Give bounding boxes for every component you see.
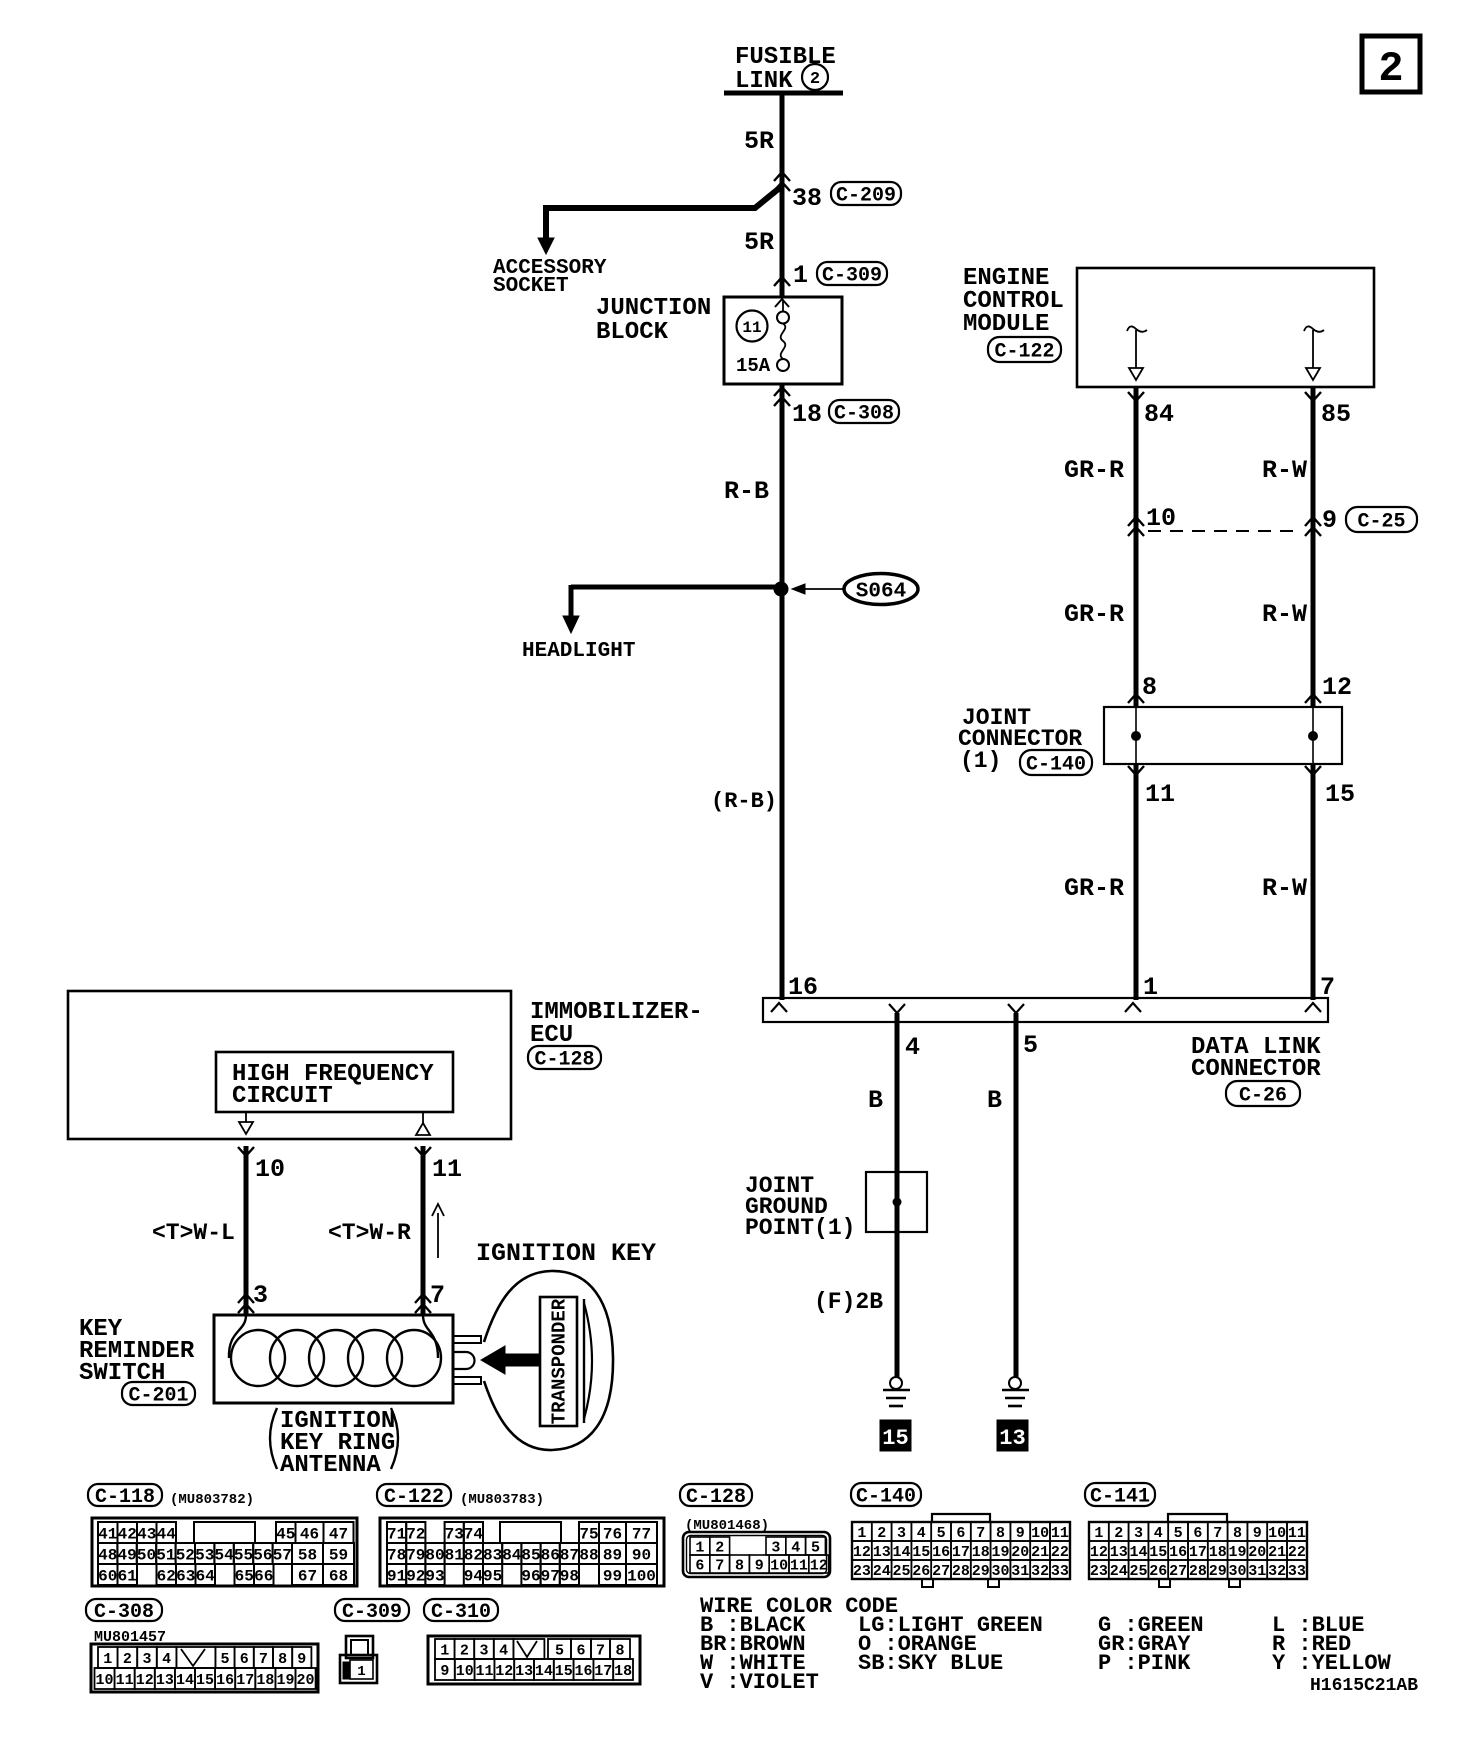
svg-text:59: 59: [329, 1546, 348, 1564]
pin 11 label ecu: [432, 1155, 462, 1184]
svg-text:<T>W-R: <T>W-R: [328, 1220, 411, 1246]
svg-text:94: 94: [464, 1567, 484, 1585]
svg-text:1: 1: [103, 1651, 112, 1668]
svg-text:2: 2: [877, 1525, 886, 1542]
svg-text:89: 89: [603, 1546, 622, 1564]
connector tag C-141: [1085, 1483, 1155, 1509]
pin 7 label dlc: [1320, 973, 1335, 1002]
svg-text:32: 32: [1268, 1563, 1286, 1580]
ground symbol left: [883, 1377, 910, 1406]
svg-text:20: 20: [1248, 1544, 1266, 1561]
svg-text:13: 13: [999, 1426, 1025, 1451]
C-122 pinout table: [380, 1518, 664, 1586]
pin 1 label dlc: [1143, 973, 1158, 1002]
svg-text:55: 55: [234, 1546, 253, 1564]
connector tag C-128: [680, 1484, 752, 1509]
svg-text:13: 13: [873, 1544, 891, 1561]
svg-text:72: 72: [406, 1525, 425, 1543]
svg-text:77: 77: [632, 1525, 651, 1543]
svg-text:19: 19: [991, 1544, 1009, 1561]
svg-text:1: 1: [695, 1539, 704, 1556]
svg-text:8: 8: [735, 1557, 744, 1574]
svg-text:14: 14: [176, 1672, 194, 1689]
pin 38 label: [792, 184, 822, 213]
svg-text:TRANSPONDER: TRANSPONDER: [549, 1298, 571, 1424]
svg-text:9: 9: [440, 1663, 449, 1680]
C-118 pinout table: [92, 1518, 357, 1586]
svg-text:4: 4: [1154, 1525, 1163, 1542]
svg-text:41: 41: [98, 1525, 117, 1543]
svg-text:57: 57: [273, 1546, 292, 1564]
ecm internal output arrow left: [1127, 326, 1147, 380]
svg-text:11: 11: [475, 1663, 493, 1680]
ecm pin 85 chevron: [1305, 392, 1321, 401]
pin 12 label: [1322, 673, 1352, 702]
ignition key label: [476, 1239, 656, 1268]
antenna coil: [229, 1315, 441, 1386]
svg-text:C-128: C-128: [534, 1049, 594, 1072]
wire label GR-R middle: [1064, 600, 1124, 629]
svg-text:(MU803782): (MU803782): [170, 1492, 254, 1508]
wire label R-W lower: [1262, 874, 1307, 903]
svg-text:29: 29: [1209, 1563, 1227, 1580]
C-140 pinout table: [852, 1514, 1070, 1587]
svg-text:18: 18: [792, 400, 822, 429]
splice pointer arrow: [792, 584, 845, 594]
svg-text:51: 51: [156, 1546, 175, 1564]
svg-text:11: 11: [1051, 1525, 1069, 1542]
svg-text:5: 5: [811, 1539, 820, 1556]
wire label B left: [868, 1086, 883, 1115]
svg-text:(1): (1): [960, 748, 1001, 774]
svg-text:3: 3: [253, 1281, 268, 1310]
C-122 part number: [460, 1492, 544, 1508]
joint ground point box: [866, 1172, 927, 1232]
svg-text:73: 73: [445, 1525, 464, 1543]
ecu pin 11 chevron: [415, 1147, 431, 1156]
svg-text:2: 2: [810, 70, 820, 89]
svg-text:3: 3: [479, 1642, 488, 1659]
svg-text:2: 2: [460, 1642, 469, 1659]
svg-text:33: 33: [1051, 1563, 1069, 1580]
svg-text:15: 15: [912, 1544, 930, 1561]
svg-text:16: 16: [574, 1663, 592, 1680]
connector tag C-140: [851, 1483, 921, 1509]
svg-text:17: 17: [594, 1663, 612, 1680]
wire W-R: [421, 1146, 426, 1315]
high frequency circuit box: [216, 1052, 453, 1112]
svg-text:R-W: R-W: [1262, 874, 1307, 903]
svg-text:C-25: C-25: [1357, 511, 1405, 534]
svg-text:C-141: C-141: [1090, 1486, 1150, 1509]
svg-text:43: 43: [137, 1525, 156, 1543]
svg-text:C-122: C-122: [994, 341, 1054, 364]
svg-text:87: 87: [560, 1546, 579, 1564]
svg-text:FUSIBLE: FUSIBLE: [735, 44, 836, 71]
legend column 2: [858, 1613, 1043, 1676]
svg-text:17: 17: [236, 1672, 254, 1689]
svg-text:8: 8: [615, 1642, 624, 1659]
svg-text:18: 18: [614, 1663, 632, 1680]
svg-text:R-B: R-B: [724, 477, 769, 506]
svg-text:100: 100: [627, 1567, 656, 1585]
svg-text:C-140: C-140: [1026, 754, 1086, 777]
svg-text:C-122: C-122: [384, 1486, 444, 1509]
headlight branch wire: [563, 585, 782, 633]
hf terminal left triangle down: [239, 1112, 253, 1134]
pin 11 label: [1145, 780, 1175, 809]
splice dot S064: [774, 582, 789, 597]
pin 10 label: [1146, 504, 1176, 533]
svg-text:12: 12: [136, 1672, 154, 1689]
svg-text:79: 79: [406, 1546, 425, 1564]
joint connector bottom chevron left: [1128, 766, 1144, 775]
C-118 part number: [170, 1492, 254, 1508]
svg-text:86: 86: [541, 1546, 560, 1564]
svg-text:46: 46: [300, 1525, 319, 1543]
connector mark above junction block: [774, 277, 790, 286]
pin 84 label: [1144, 400, 1174, 429]
svg-text:C-309: C-309: [342, 1601, 402, 1624]
svg-text:7: 7: [715, 1557, 724, 1574]
svg-text:15: 15: [1149, 1544, 1167, 1561]
svg-text:80: 80: [425, 1546, 444, 1564]
svg-text:22: 22: [1051, 1544, 1069, 1561]
svg-text:9: 9: [1322, 506, 1337, 535]
svg-text:38: 38: [792, 184, 822, 213]
svg-text:Y :YELLOW: Y :YELLOW: [1272, 1651, 1392, 1676]
svg-text:14: 14: [1129, 1544, 1147, 1561]
svg-text:54: 54: [214, 1546, 234, 1564]
pin 16 label: [788, 973, 818, 1002]
joint connector label: [958, 705, 1082, 774]
wire label (R-B): [711, 789, 777, 814]
svg-text:C-310: C-310: [431, 1601, 491, 1624]
ignition key ring antenna label: [270, 1408, 398, 1479]
connector tag C-26: [1226, 1081, 1300, 1108]
wire GR-R from ECM pin 84: [1134, 387, 1139, 707]
svg-text:9: 9: [1016, 1525, 1025, 1542]
wire label W-R: [328, 1220, 411, 1246]
svg-text:2: 2: [1378, 45, 1403, 93]
svg-text:7: 7: [259, 1651, 268, 1668]
svg-text:POINT(1): POINT(1): [745, 1215, 855, 1241]
svg-text:18: 18: [972, 1544, 990, 1561]
svg-text:84: 84: [1144, 400, 1174, 429]
svg-text:53: 53: [195, 1546, 214, 1564]
ground ref box 15: [880, 1420, 911, 1451]
svg-text:5: 5: [1174, 1525, 1183, 1542]
svg-text:31: 31: [1011, 1563, 1029, 1580]
junction block box: [724, 297, 842, 384]
svg-text:11: 11: [1288, 1525, 1306, 1542]
wire branch to accessory socket: [538, 186, 782, 254]
svg-text:HEADLIGHT: HEADLIGHT: [522, 640, 635, 663]
svg-text:13: 13: [1110, 1544, 1128, 1561]
C-128 pinout table: [683, 1532, 830, 1577]
transponder arrow: [481, 1346, 539, 1374]
wire label R-B: [724, 477, 769, 506]
pin 4 label: [905, 1033, 920, 1062]
svg-text:ANTENNA: ANTENNA: [280, 1452, 381, 1479]
wire label 5R lower: [744, 228, 774, 257]
connector tag C-309: [817, 262, 887, 288]
joint connector box: [1104, 707, 1342, 764]
svg-text:20: 20: [297, 1672, 315, 1689]
ecm pin 84 chevron: [1128, 392, 1144, 401]
svg-text:30: 30: [991, 1563, 1009, 1580]
svg-text:30: 30: [1228, 1563, 1246, 1580]
C-310 pinout table: [428, 1636, 640, 1684]
svg-text:BLOCK: BLOCK: [596, 319, 669, 346]
svg-text:9: 9: [1253, 1525, 1262, 1542]
svg-text:JUNCTION: JUNCTION: [596, 295, 711, 322]
svg-text:23: 23: [1090, 1563, 1108, 1580]
connector tag C-25: [1346, 507, 1417, 534]
wire B pin 5: [1014, 1013, 1019, 1378]
svg-text:6: 6: [240, 1651, 249, 1668]
svg-text:66: 66: [254, 1567, 273, 1585]
svg-text:10: 10: [255, 1155, 285, 1184]
svg-text:10: 10: [1031, 1525, 1049, 1542]
svg-text:71: 71: [387, 1525, 406, 1543]
svg-text:88: 88: [579, 1546, 598, 1564]
svg-text:16: 16: [1169, 1544, 1187, 1561]
svg-text:26: 26: [912, 1563, 930, 1580]
svg-text:83: 83: [483, 1546, 502, 1564]
svg-text:GR-R: GR-R: [1064, 874, 1124, 903]
svg-text:12: 12: [853, 1544, 871, 1561]
joint connector top chevron left: [1128, 694, 1144, 703]
connector tag C-310: [424, 1599, 498, 1624]
svg-text:90: 90: [632, 1546, 651, 1564]
svg-text:45: 45: [276, 1525, 295, 1543]
wire label (F)2B: [814, 1289, 883, 1315]
connector tag C-140 joint: [1020, 750, 1092, 777]
wire R-W lower: [1311, 764, 1316, 1000]
svg-text:3: 3: [897, 1525, 906, 1542]
svg-text:6: 6: [956, 1525, 965, 1542]
fuse symbol: [777, 300, 789, 371]
svg-text:<T>W-L: <T>W-L: [152, 1220, 235, 1246]
svg-text:(F)2B: (F)2B: [814, 1289, 883, 1315]
wire R-W from ECM pin 85: [1311, 387, 1316, 707]
svg-text:42: 42: [118, 1525, 137, 1543]
svg-text:49: 49: [117, 1546, 136, 1564]
svg-text:7: 7: [430, 1281, 445, 1310]
svg-text:10: 10: [770, 1557, 788, 1574]
svg-text:95: 95: [483, 1567, 502, 1585]
hf terminal right triangle up: [416, 1112, 430, 1135]
svg-text:5: 5: [937, 1525, 946, 1542]
dlc entry chevron pin1: [1125, 1003, 1141, 1012]
svg-text:6: 6: [576, 1642, 585, 1659]
svg-text:17: 17: [1189, 1544, 1207, 1561]
wire W-L: [244, 1146, 249, 1315]
C-25 double chevron right: [1305, 517, 1321, 536]
wire label R-W middle: [1262, 600, 1307, 629]
legend column 1: [700, 1613, 819, 1695]
connector tag C-118: [88, 1484, 162, 1509]
svg-text:V :VIOLET: V :VIOLET: [700, 1670, 819, 1695]
svg-text:24: 24: [1110, 1563, 1128, 1580]
data link connector bar: [763, 998, 1328, 1022]
svg-text:52: 52: [176, 1546, 195, 1564]
svg-text:28: 28: [1189, 1563, 1207, 1580]
pin 18 label: [792, 400, 822, 429]
svg-text:91: 91: [387, 1567, 406, 1585]
svg-text:24: 24: [873, 1563, 891, 1580]
svg-text:IGNITION KEY: IGNITION KEY: [476, 1239, 656, 1268]
svg-text:2: 2: [715, 1539, 724, 1556]
svg-text:19: 19: [276, 1672, 294, 1689]
legend column 3: [1098, 1613, 1204, 1676]
svg-text:16: 16: [932, 1544, 950, 1561]
diagram id H1615C21AB: [1310, 1676, 1418, 1696]
switch pin: [453, 1352, 475, 1369]
junction block top chevron: [775, 299, 789, 307]
svg-text:23: 23: [853, 1563, 871, 1580]
svg-text:5: 5: [220, 1651, 229, 1668]
svg-text:64: 64: [196, 1567, 216, 1585]
svg-text:26: 26: [1149, 1563, 1167, 1580]
svg-text:MODULE: MODULE: [963, 311, 1049, 338]
immobilizer ecu label: [530, 999, 703, 1049]
svg-text:C-209: C-209: [836, 185, 896, 208]
wire label B right: [987, 1086, 1002, 1115]
svg-text:98: 98: [560, 1567, 579, 1585]
connector tag C-122: [377, 1484, 451, 1509]
connector tag C-209: [831, 182, 901, 208]
svg-text:C-140: C-140: [856, 1486, 916, 1509]
svg-text:SOCKET: SOCKET: [493, 275, 569, 298]
svg-text:97: 97: [541, 1567, 560, 1585]
svg-text:47: 47: [329, 1525, 348, 1543]
svg-text:11: 11: [116, 1672, 134, 1689]
svg-text:18: 18: [256, 1672, 274, 1689]
svg-text:CONNECTOR: CONNECTOR: [1191, 1056, 1321, 1083]
svg-text:99: 99: [603, 1567, 622, 1585]
svg-text:B: B: [868, 1086, 883, 1115]
svg-text:13: 13: [515, 1663, 533, 1680]
svg-text:96: 96: [521, 1567, 540, 1585]
connector mark below junction block: [774, 387, 790, 406]
svg-text:3: 3: [1134, 1525, 1143, 1542]
svg-text:67: 67: [298, 1567, 317, 1585]
key reminder switch box: [214, 1315, 453, 1403]
svg-text:85: 85: [521, 1546, 540, 1564]
ecm internal output arrow right: [1304, 326, 1324, 380]
svg-text:78: 78: [387, 1546, 406, 1564]
svg-text:10: 10: [96, 1672, 114, 1689]
svg-text:74: 74: [464, 1525, 484, 1543]
C-308 pinout table: [91, 1644, 318, 1692]
connector tag C-122 ecm: [988, 337, 1061, 364]
svg-text:84: 84: [502, 1546, 522, 1564]
transponder label: [549, 1298, 571, 1424]
svg-text:11: 11: [1145, 780, 1175, 809]
joint ground point label: [745, 1173, 855, 1241]
wire label GR-R lower: [1064, 874, 1124, 903]
fusible link bus bar: [724, 91, 843, 96]
pin 85 label: [1321, 400, 1351, 429]
svg-text:R-W: R-W: [1262, 600, 1307, 629]
splice tag S064: [844, 574, 918, 605]
junction block label: [596, 295, 711, 346]
svg-text:15A: 15A: [736, 355, 771, 377]
svg-text:B: B: [987, 1086, 1002, 1115]
C-141 pinout table: [1089, 1514, 1307, 1587]
svg-text:32: 32: [1031, 1563, 1049, 1580]
svg-text:4: 4: [499, 1642, 508, 1659]
svg-text:68: 68: [329, 1567, 348, 1585]
wire color code title: [700, 1594, 898, 1619]
svg-text:12: 12: [1322, 673, 1352, 702]
ground ref box 13: [997, 1420, 1028, 1451]
krs pin 7 dchev: [415, 1294, 431, 1313]
svg-text:C-26: C-26: [1239, 1085, 1287, 1108]
svg-text:31: 31: [1248, 1563, 1266, 1580]
svg-text:CIRCUIT: CIRCUIT: [232, 1083, 333, 1110]
svg-text:12: 12: [810, 1557, 828, 1574]
pin 8 label: [1142, 673, 1157, 702]
svg-text:7: 7: [1213, 1525, 1222, 1542]
svg-text:27: 27: [932, 1563, 950, 1580]
connector tag C-309: [335, 1599, 409, 1624]
fusible link label: [735, 44, 836, 95]
svg-text:8: 8: [1142, 673, 1157, 702]
svg-text:65: 65: [235, 1567, 254, 1585]
svg-text:93: 93: [425, 1567, 444, 1585]
svg-text:C-309: C-309: [822, 265, 882, 288]
joint connector top chevron right: [1305, 694, 1321, 703]
svg-text:C-128: C-128: [686, 1486, 746, 1509]
svg-text:6: 6: [1193, 1525, 1202, 1542]
engine control module box: [1077, 268, 1374, 387]
svg-text:19: 19: [1228, 1544, 1246, 1561]
pin 10 label ecu: [255, 1155, 285, 1184]
svg-text:14: 14: [892, 1544, 910, 1561]
svg-text:10: 10: [456, 1663, 474, 1680]
svg-text:15: 15: [1325, 780, 1355, 809]
svg-text:C-308: C-308: [94, 1601, 154, 1624]
C-309 connector icon: [340, 1636, 377, 1683]
svg-text:6: 6: [695, 1557, 704, 1574]
svg-text:81: 81: [445, 1546, 464, 1564]
svg-text:60: 60: [98, 1567, 117, 1585]
connector tag C-308: [829, 400, 899, 426]
svg-text:5: 5: [1023, 1031, 1038, 1060]
fusible link circled 2: [802, 64, 828, 90]
svg-text:50: 50: [137, 1546, 156, 1564]
svg-text:C-118: C-118: [95, 1486, 155, 1509]
svg-text:29: 29: [972, 1563, 990, 1580]
immobilizer ecu box: [68, 991, 511, 1139]
joint connector internal left: [1131, 707, 1141, 764]
svg-text:1: 1: [857, 1525, 866, 1542]
legend column 4: [1272, 1613, 1392, 1676]
svg-text:33: 33: [1288, 1563, 1306, 1580]
joint connector internal right: [1308, 707, 1318, 764]
wire 5R main vertical: [780, 93, 785, 1000]
dlc exit chevron pin4: [889, 1004, 905, 1013]
wire label R-W upper: [1262, 456, 1307, 485]
connector tag C-308: [86, 1599, 162, 1624]
svg-text:3: 3: [142, 1651, 151, 1668]
C-128 part number: [685, 1518, 769, 1534]
fuse rating 15A: [736, 355, 771, 377]
svg-text:8: 8: [1233, 1525, 1242, 1542]
